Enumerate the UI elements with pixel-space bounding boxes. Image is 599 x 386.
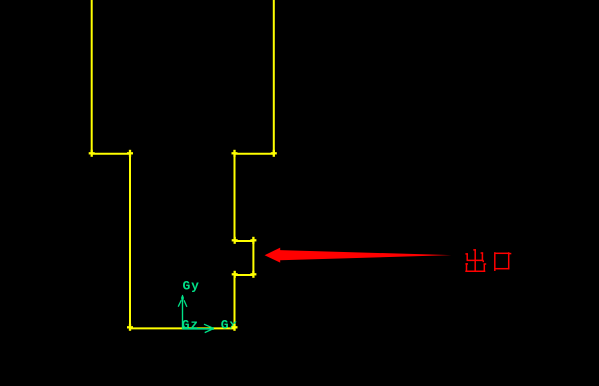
axis triad Gy arrow — [178, 295, 187, 329]
node marker top-left inner corner — [127, 150, 133, 157]
node marker notch bottom-left — [232, 271, 238, 278]
wire bottom horizontal — [130, 327, 235, 329]
annotation arrow (red) — [265, 248, 452, 263]
wire top-right horizontal — [235, 153, 274, 155]
wire right inner vertical lower — [234, 275, 236, 328]
wire left inner vertical — [129, 154, 131, 329]
label 出 (outlet char 1) — [465, 249, 486, 272]
node marker notch bottom-right — [250, 271, 256, 278]
node marker notch top-right — [250, 237, 256, 244]
wire top-left horizontal — [92, 153, 130, 155]
wire left outer vertical — [91, 0, 93, 154]
node marker notch top-left — [232, 237, 238, 244]
vertex markers — [89, 150, 277, 331]
label 口 (outlet char 2) — [495, 252, 512, 271]
axis triad Gx arrow — [183, 324, 214, 332]
wire notch right (outlet face) — [252, 241, 254, 275]
svg-text:Gy: Gy — [183, 279, 200, 294]
node marker top-right corner — [271, 150, 277, 157]
wire right inner vertical upper — [234, 154, 236, 241]
node marker bottom-right corner — [232, 324, 238, 331]
node marker top-left corner — [89, 150, 95, 157]
svg-text:Gz: Gz — [182, 318, 199, 333]
wire notch top — [235, 240, 254, 242]
node marker top-right inner corner — [232, 150, 238, 157]
wire notch bottom — [235, 274, 254, 276]
node marker bottom-left corner — [127, 324, 133, 331]
wire right outer vertical — [273, 0, 275, 154]
